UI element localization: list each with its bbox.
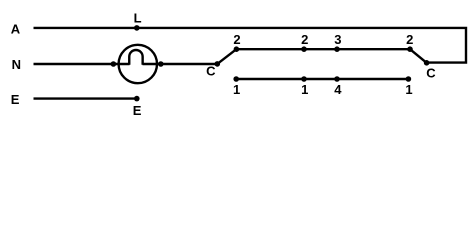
svg-text:E: E (11, 92, 20, 107)
intermediate switch terminal 3 dot (334, 46, 340, 52)
svg-text:2: 2 (233, 32, 240, 47)
switch SW2 blade: terminal 2 to common (410, 49, 427, 63)
switch SW1 blade: common to terminal 2 (217, 49, 236, 64)
switch SW2 terminal 1 dot (406, 76, 412, 82)
svg-text:1: 1 (301, 82, 308, 97)
svg-text:A: A (11, 21, 21, 36)
switch SW2 common terminal C dot (424, 60, 430, 66)
switch SW1 terminal 2 dot (234, 46, 240, 52)
svg-text:C: C (206, 64, 216, 79)
switch SW1 common terminal C dot (215, 61, 221, 67)
svg-text:2: 2 (301, 32, 308, 47)
svg-text:C: C (426, 65, 436, 80)
wire A: phase feed line, right edge drop to switch 2 common (34, 28, 467, 63)
svg-text:E: E (133, 103, 142, 118)
intermediate switch terminal 1 dot (301, 76, 307, 82)
node L junction dot (134, 25, 140, 31)
node E terminal dot (134, 96, 140, 102)
junction dot: lamp left terminal (111, 61, 117, 67)
svg-text:3: 3 (334, 32, 341, 47)
intermediate switch terminal 4 dot (334, 76, 340, 82)
switch SW1 terminal 1 dot (233, 76, 239, 82)
wire: lamp right to switch 1 common (143, 63, 218, 65)
wire: top strapper SW1-2 to SW2-2 via intermediate (236, 48, 410, 50)
svg-text:L: L (134, 10, 142, 25)
svg-text:4: 4 (334, 82, 342, 97)
svg-text:1: 1 (405, 82, 412, 97)
junction dot: lamp right terminal (158, 61, 164, 67)
wire: bottom strapper SW1-1 to SW2-1 via intermediate (236, 78, 408, 80)
svg-text:2: 2 (406, 32, 413, 47)
wire E: earth line (34, 97, 137, 99)
intermediate switch terminal 2 dot (301, 46, 307, 52)
lamp DL1: bulb filament bump (129, 50, 142, 65)
lamp DL1: bulb circle outline (119, 45, 157, 83)
wire N: neutral line from N to lamp left (34, 63, 130, 65)
switch SW2 terminal 2 dot (407, 46, 413, 52)
svg-text:N: N (12, 57, 21, 72)
svg-text:1: 1 (233, 82, 240, 97)
